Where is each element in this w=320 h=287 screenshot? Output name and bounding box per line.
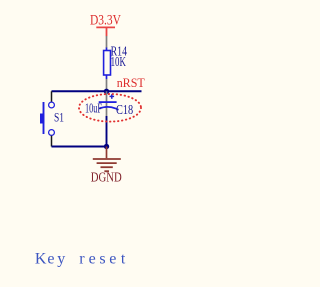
svg-text:10K: 10K xyxy=(111,55,126,70)
svg-text:Key reset: Key reset xyxy=(35,251,126,268)
svg-text:10uF: 10uF xyxy=(85,101,102,116)
svg-text:D3.3V: D3.3V xyxy=(90,12,121,28)
svg-text:C18: C18 xyxy=(116,103,133,118)
svg-text:S1: S1 xyxy=(54,110,64,125)
svg-text:DGND: DGND xyxy=(91,171,122,186)
svg-text:nRST: nRST xyxy=(117,75,145,90)
